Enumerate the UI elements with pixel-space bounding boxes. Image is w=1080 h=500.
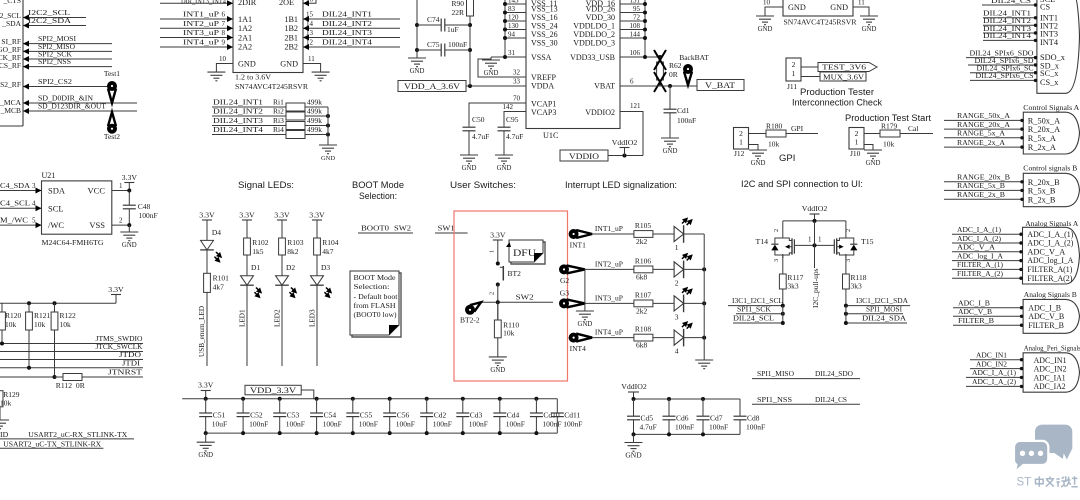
capacitor Cd8 100nF (734, 399, 766, 434)
svg-text:4.7uF: 4.7uF (506, 132, 523, 141)
svg-text:VDD33_USB: VDD33_USB (570, 53, 615, 62)
net label MUX_3.6V (801, 72, 866, 81)
LED 4 (interrupt) (674, 319, 706, 355)
svg-text:R62: R62 (669, 61, 682, 70)
svg-text:ADC_IN1: ADC_IN1 (1034, 356, 1067, 365)
svg-text:R_5x_B: R_5x_B (1028, 187, 1056, 196)
wire DIL24_CS (982, 0, 1037, 7)
resistor Ri2 499k on DIL24_INT2 (212, 107, 330, 121)
svg-text:100nF: 100nF (746, 423, 765, 432)
section title GPI (779, 153, 795, 164)
svg-text:DIR_INT3_INT4: DIR_INT3_INT4 (181, 0, 226, 6)
svg-text:100nF: 100nF (506, 420, 525, 429)
wire USART2_uC-RX_STLINK-TX (0, 430, 134, 439)
wire SPI2_SCK (23, 50, 112, 62)
svg-text:2DIR: 2DIR (238, 0, 257, 7)
svg-text:SN74AVC4T245RSVR: SN74AVC4T245RSVR (235, 82, 309, 91)
svg-text:94: 94 (508, 31, 516, 39)
net flag TEST_3V6 (801, 63, 877, 72)
svg-text:144: 144 (630, 31, 641, 39)
svg-text:R_20x_A: R_20x_A (1028, 125, 1060, 134)
svg-text:1.2 to 3.6V: 1.2 to 3.6V (235, 73, 271, 82)
svg-text:2: 2 (489, 292, 496, 295)
svg-text:VBAT: VBAT (594, 82, 615, 91)
svg-text:12: 12 (306, 39, 314, 47)
wire SPI1_MISO to DIL24_SDO (752, 369, 860, 379)
svg-text:INT1_uP: INT1_uP (595, 224, 624, 233)
svg-text:DIL24_CS: DIL24_CS (815, 395, 847, 404)
section title Production Tester Interconnection Check (792, 87, 882, 108)
wire ADC_V_A (952, 243, 1023, 254)
wire SPI1_MOSI (844, 304, 903, 323)
wire INT1_uP (160, 10, 233, 23)
resistor R105 2k2 wire INT1_uP (592, 221, 674, 246)
svg-text:D2: D2 (286, 263, 295, 272)
svg-text:GND: GND (830, 3, 848, 12)
svg-text:2A1: 2A1 (238, 34, 252, 43)
svg-text:4k7: 4k7 (322, 247, 334, 256)
svg-text:I2C and SPI connection to UI:: I2C and SPI connection to UI: (741, 179, 863, 189)
svg-text:1A2: 1A2 (238, 24, 252, 33)
svg-text:BT2-2: BT2-2 (460, 316, 480, 325)
svg-text:Cd1: Cd1 (677, 106, 690, 115)
svg-text:100nF: 100nF (563, 420, 582, 429)
wire VDD bus (620, 0, 662, 59)
svg-text:DIL24_CS: DIL24_CS (991, 0, 1031, 5)
wire DIR_INT3_INT4 to 2DIR (160, 0, 233, 6)
resistor R102 1k5 (244, 220, 269, 276)
capacitor Cd4 100nF (493, 399, 525, 433)
svg-text:1: 1 (489, 250, 496, 253)
capacitor C75 100nF (417, 40, 470, 57)
wire RANGE_2x_B (944, 190, 1024, 201)
svg-text:4: 4 (32, 200, 36, 208)
svg-text:13: 13 (306, 29, 314, 37)
svg-text:2: 2 (845, 229, 852, 232)
ground for interrupt LEDs (695, 360, 713, 369)
svg-text:ID: ID (0, 430, 9, 439)
wire RANGE_20x_A (944, 120, 1024, 131)
svg-text:INT4_uP: INT4_uP (183, 38, 220, 47)
svg-text:2B2: 2B2 (284, 43, 298, 52)
svg-text:2k2: 2k2 (636, 237, 648, 246)
power flag 3.3V for U21 (122, 173, 138, 191)
svg-text:83: 83 (508, 5, 516, 13)
svg-text:1: 1 (675, 243, 679, 252)
wire VDDIO2 pin 121 (620, 102, 643, 156)
svg-text:GPI: GPI (791, 124, 804, 133)
svg-text:SD_D123DIR_&OUT: SD_D123DIR_&OUT (38, 102, 106, 111)
svg-text:14: 14 (306, 20, 314, 28)
svg-text:JTDI: JTDI (122, 358, 141, 367)
svg-text:DIL24_INT4: DIL24_INT4 (983, 31, 1031, 40)
wire analog filter rail (415, 0, 472, 58)
svg-text:GND: GND (484, 70, 499, 77)
wire VSS bus (491, 0, 526, 59)
wire DIL24_INT1 (983, 9, 1037, 20)
svg-text:Ri1: Ri1 (273, 98, 284, 107)
wire LED2 (274, 285, 283, 366)
svg-text:499k: 499k (307, 116, 322, 125)
svg-text:VSS: VSS (89, 220, 105, 230)
svg-text:2A2: 2A2 (238, 43, 252, 52)
ground pin 10 of second U (756, 0, 783, 33)
ground for U21 (120, 225, 138, 249)
svg-text:INT1_uP: INT1_uP (183, 10, 220, 19)
svg-text:DIL24_SCL: DIL24_SCL (733, 314, 774, 323)
svg-text:G3: G3 (560, 288, 569, 297)
svg-text:FILTER_A_(1): FILTER_A_(1) (957, 260, 1003, 269)
svg-text:BOOT Mode: BOOT Mode (352, 180, 404, 191)
svg-text:4.7uF: 4.7uF (472, 132, 489, 141)
svg-text:Test1: Test1 (104, 69, 120, 78)
svg-text:INT2_uP: INT2_uP (595, 259, 624, 268)
wire DIL24_SCL (733, 314, 785, 325)
wire Cal (908, 124, 918, 133)
capacitor C54 100nF (310, 399, 342, 433)
section title User Switches (450, 180, 516, 191)
svg-text:VddIO2: VddIO2 (612, 138, 638, 147)
LED D1 (240, 263, 264, 298)
svg-text:72: 72 (633, 14, 641, 22)
resistor R112 0R (55, 374, 144, 391)
switch BT2 (489, 250, 522, 295)
svg-text:VDD_A_3.6V: VDD_A_3.6V (404, 82, 460, 91)
svg-text:6: 6 (630, 78, 634, 86)
svg-text:15: 15 (306, 11, 314, 19)
svg-text:S2_RF: S2_RF (0, 80, 21, 89)
svg-text:Production Tester: Production Tester (800, 87, 874, 97)
ground for R129 (0, 420, 9, 429)
test point Test1 (104, 69, 120, 103)
wire JTCK_SWCLK (0, 342, 143, 352)
svg-text:1B2: 1B2 (284, 24, 298, 33)
svg-text:3.3V: 3.3V (309, 211, 325, 220)
ground for Cd1 (661, 138, 679, 155)
wire gate tie I2C pull-ups (794, 221, 834, 308)
power flag 3.3V for D1 (239, 211, 255, 239)
LED D2 (275, 263, 299, 298)
svg-text:ADC_IN2: ADC_IN2 (1034, 365, 1067, 374)
svg-text:_CTS: _CTS (2, 0, 21, 5)
svg-text:1: 1 (808, 236, 812, 244)
svg-text:R108: R108 (635, 325, 652, 334)
harness connector Analog Signals A (1023, 219, 1080, 284)
note DFU (506, 240, 545, 264)
svg-text:M24C64-FMH6TG: M24C64-FMH6TG (42, 238, 104, 247)
svg-text:22R: 22R (451, 8, 464, 17)
wire INT3_uP (160, 28, 233, 41)
power flag 3.3V for JTAG (108, 285, 124, 303)
wire DIL24_SPIx6_SC (970, 64, 1037, 75)
svg-text:RANGE_2x_A: RANGE_2x_A (957, 138, 1005, 147)
svg-text:3.3V: 3.3V (122, 173, 138, 182)
wire SPI2_MISO (23, 42, 112, 54)
svg-text:Cd3: Cd3 (470, 411, 483, 420)
svg-text:1: 1 (818, 236, 822, 244)
svg-text:INT2_uP: INT2_uP (183, 19, 220, 28)
svg-text:2: 2 (119, 217, 123, 225)
svg-text:DIL24_INT3: DIL24_INT3 (322, 28, 372, 37)
svg-text:Cd6: Cd6 (676, 414, 689, 423)
harness connector DIL24/UI bus (top right) (1037, 0, 1080, 93)
svg-text:10k: 10k (503, 329, 514, 338)
svg-text:M_/WC: M_/WC (0, 216, 28, 225)
svg-text:Cd7: Cd7 (710, 414, 723, 423)
wire SPI1_SCK (736, 304, 785, 323)
svg-text:10uF: 10uF (212, 420, 227, 429)
svg-text:from FLASH: from FLASH (354, 302, 396, 310)
wire DIL24_INT4 (983, 31, 1037, 42)
wire FILTER_A_(1) (952, 260, 1023, 271)
svg-text:R_5x_A: R_5x_A (1028, 134, 1056, 143)
wire 3.3V rail top (182, 397, 557, 401)
svg-text:USART2_uC-TX_STLINK-RX: USART2_uC-TX_STLINK-RX (3, 439, 101, 448)
svg-text:4.7uF: 4.7uF (640, 423, 657, 432)
note BOOT Mode Selection (350, 271, 401, 337)
resistor R101 4k7 (204, 262, 230, 302)
svg-text:VDDA: VDDA (531, 82, 554, 91)
test point Test2 (104, 112, 120, 141)
svg-text:R102: R102 (252, 238, 269, 247)
wire G2-G3 ground tie (584, 269, 586, 311)
svg-text:INT3_uP: INT3_uP (183, 28, 220, 37)
svg-text:C54: C54 (324, 411, 337, 420)
svg-text:Cd2: Cd2 (434, 411, 447, 420)
power flag 3.3V for D2 (274, 211, 290, 239)
svg-text:J10: J10 (850, 149, 861, 158)
section title Signal LEDs (238, 180, 294, 191)
svg-text:USB_enum_LED: USB_enum_LED (198, 306, 206, 357)
svg-text:100nF: 100nF (286, 420, 305, 429)
wire LED3 (309, 285, 318, 366)
resistor R118 3k3 (843, 254, 867, 306)
ground for R110 (489, 357, 507, 374)
ground for C50 (460, 155, 478, 172)
section title Production Test Start (845, 113, 931, 123)
svg-text:R_2x_A: R_2x_A (1028, 143, 1056, 152)
svg-text:ADC_IA1: ADC_IA1 (1034, 373, 1066, 382)
svg-text:DIL24_INT1: DIL24_INT1 (213, 98, 263, 107)
svg-text:3: 3 (32, 182, 36, 190)
svg-text:User Switches:: User Switches: (450, 180, 516, 191)
capacitor C53 100nF (273, 399, 305, 433)
svg-text:ADC_log_I_A: ADC_log_I_A (1027, 256, 1073, 265)
wire INT2_uP (160, 19, 233, 32)
svg-text:SPI2_CS2: SPI2_CS2 (38, 77, 72, 86)
wire BOOT0 / SW2 (358, 224, 413, 234)
svg-text:R112 0R: R112 0R (56, 381, 85, 390)
svg-text:142: 142 (503, 103, 514, 111)
svg-text:RANGE_50x_A: RANGE_50x_A (957, 111, 1010, 120)
svg-text:R104: R104 (322, 238, 339, 247)
resistor Ri3 499k on DIL24_INT3 (212, 116, 330, 130)
svg-text:VDDLDO_3: VDDLDO_3 (573, 39, 615, 48)
test point BackBAT (679, 53, 709, 85)
wire I3C1_I2C1_SDA (844, 296, 910, 308)
svg-text:ADC_IA2: ADC_IA2 (1034, 382, 1066, 391)
svg-text:R122: R122 (60, 311, 77, 320)
wire RANGE_2x_A (944, 138, 1024, 149)
svg-text:6k8: 6k8 (636, 272, 648, 281)
svg-text:ST: ST (1017, 477, 1032, 489)
svg-text:SPI1_MOSI: SPI1_MOSI (866, 304, 902, 313)
wire I2C2_SDA (23, 16, 86, 29)
wire VBAT net (620, 78, 697, 89)
svg-text:CS: CS (1040, 2, 1051, 11)
svg-text:U21: U21 (42, 171, 56, 180)
svg-text:10k: 10k (60, 320, 72, 329)
test point INT1 (569, 229, 593, 250)
wire JTDO (0, 350, 143, 360)
svg-text:DIL24_SDA: DIL24_SDA (862, 314, 906, 323)
svg-text:499k: 499k (307, 107, 322, 116)
svg-text:C51: C51 (213, 411, 226, 420)
wire ADC_I_A_(2) (952, 234, 1023, 245)
svg-text:RANGE_20x_A: RANGE_20x_A (957, 120, 1010, 129)
svg-text:Cal: Cal (908, 124, 918, 133)
capacitor C48 100nF (123, 191, 158, 226)
svg-text:Control Signals A: Control Signals A (1023, 103, 1079, 112)
svg-text:BOOT Mode: BOOT Mode (354, 274, 396, 282)
svg-text:131: 131 (630, 0, 641, 5)
svg-text:SN74AVC4T245RSVR: SN74AVC4T245RSVR (784, 18, 858, 27)
ground for C95 (495, 155, 513, 172)
svg-text:FILTER_B: FILTER_B (1028, 321, 1064, 330)
ground for J12 (749, 145, 768, 168)
highlight box (red) (454, 211, 568, 381)
resistor Ri4 499k on DIL24_INT4 (212, 125, 330, 139)
svg-text:Analog_Peri_Signals: Analog_Peri_Signals (1024, 344, 1080, 353)
wire DIL24_SDA (844, 314, 907, 325)
capacitor C95 4.7uF (498, 103, 527, 155)
ground for VSSA (482, 57, 500, 77)
svg-text:11: 11 (858, 0, 865, 7)
svg-text:GND: GND (751, 160, 766, 167)
svg-text:R179: R179 (881, 122, 898, 131)
resistor R120 10k (0, 303, 22, 343)
svg-text:GND: GND (862, 26, 877, 33)
ground for cap bank (197, 433, 215, 459)
harness connector Control signals B (1023, 164, 1079, 207)
wire VDDIO net (608, 154, 643, 158)
wire DIL24_SPIx6_CS (970, 71, 1037, 82)
connector J10 (849, 128, 864, 159)
svg-text:ADC_V_A: ADC_V_A (1027, 247, 1065, 256)
svg-text:3.3V: 3.3V (199, 211, 215, 220)
svg-text:Test2: Test2 (104, 132, 120, 141)
svg-text:_SDA: _SDA (1, 19, 21, 28)
svg-text:2: 2 (773, 229, 780, 232)
capacitor Cd1 100nF (664, 86, 697, 138)
svg-text:ADC_I_A_(1): ADC_I_A_(1) (957, 225, 1001, 234)
svg-text:100nF: 100nF (675, 423, 694, 432)
svg-text:ADC_V_B: ADC_V_B (1028, 312, 1064, 321)
svg-text:GPI: GPI (779, 153, 795, 164)
svg-text:CS_x: CS_x (1040, 78, 1059, 87)
svg-text:1: 1 (739, 138, 743, 147)
wire SD_D123DIR_&OUT (23, 102, 137, 114)
svg-text:Selection:: Selection: (359, 191, 397, 202)
capacitor C50 4.7uF (463, 95, 527, 156)
svg-text:Ri3: Ri3 (273, 116, 284, 125)
capacitor C52 100nF (237, 399, 269, 433)
svg-text:33: 33 (513, 78, 521, 86)
svg-text:R120: R120 (5, 311, 22, 320)
wire SPI2_CS2 (23, 77, 110, 90)
ground for Cd bank (625, 434, 643, 459)
wire JTNRST (0, 368, 143, 380)
svg-text:GND: GND (280, 60, 298, 69)
wire JTDI (0, 358, 143, 370)
wire USART2_uC-TX_STLINK-RX (0, 439, 103, 448)
svg-text:INT4: INT4 (1040, 38, 1059, 47)
svg-text:Analog Signals A: Analog Signals A (1025, 219, 1078, 228)
svg-text:LED3: LED3 (309, 309, 317, 327)
power flag VddIO2 for pull-ups (802, 204, 828, 221)
svg-text:TEST_3V6: TEST_3V6 (822, 63, 866, 72)
wire VCC pin 1 (112, 182, 132, 193)
ground for Ri block (319, 145, 337, 162)
svg-text:G2: G2 (560, 276, 569, 285)
section title BOOT Mode Selection (352, 180, 404, 202)
wire Ri common to ground (327, 107, 329, 145)
resistor R106 6k8 wire INT2_uP (585, 256, 674, 281)
svg-text:100nF: 100nF (433, 420, 452, 429)
LED D3 (310, 263, 334, 298)
wire I3C1_I2C1_SCL (728, 296, 785, 308)
svg-text:Control signals B: Control signals B (1023, 164, 1077, 173)
wire 3.3V pull-up rail (0, 301, 116, 305)
svg-text:100nF: 100nF (677, 116, 696, 125)
svg-text:Interconnection Check: Interconnection Check (792, 98, 882, 108)
wire VddIO2 rail (632, 397, 741, 401)
test point BT2-2 (460, 302, 481, 324)
svg-text:121: 121 (630, 102, 641, 110)
svg-text:SW2: SW2 (516, 293, 534, 302)
svg-text:Selection:: Selection: (354, 283, 390, 291)
level shifter U SN74AVC4T245RSVR (top) (233, 0, 309, 91)
svg-text:4k7: 4k7 (213, 283, 225, 292)
svg-text:D1: D1 (251, 263, 260, 272)
wire SW2 node (481, 285, 553, 321)
svg-text:DIL24_INT2: DIL24_INT2 (213, 107, 263, 116)
resistor R122 10k (51, 303, 76, 377)
svg-text:VddIO2: VddIO2 (621, 382, 647, 391)
svg-text:DIL24_INT3: DIL24_INT3 (213, 116, 263, 125)
svg-text:_MCB: _MCB (0, 106, 21, 115)
svg-text:3.3V: 3.3V (198, 381, 214, 390)
wire ADC_I_A_(2) (peri) (966, 377, 1023, 388)
svg-text:VddIO2: VddIO2 (802, 204, 828, 213)
svg-text:C56: C56 (397, 411, 410, 420)
svg-text:Signal LEDs:: Signal LEDs: (238, 180, 294, 191)
svg-text:VDDIO2: VDDIO2 (585, 108, 615, 117)
svg-text:GND: GND (788, 3, 806, 12)
svg-text:2B1: 2B1 (284, 34, 298, 43)
svg-text:MUX_3.6V: MUX_3.6V (823, 72, 865, 81)
svg-text:C52: C52 (250, 411, 263, 420)
power flag VddIO2 for Cd bank (621, 382, 647, 399)
svg-text:ADC_log_I_A: ADC_log_I_A (957, 251, 1003, 260)
capacitor C56 100nF (383, 399, 415, 433)
harness connector Analog_Peri_Signals (1023, 344, 1080, 393)
wire SD_D0DIR_&IN (23, 94, 137, 107)
svg-text:106: 106 (630, 49, 641, 57)
svg-text:10k: 10k (34, 320, 46, 329)
svg-text:100nF: 100nF (448, 40, 467, 49)
svg-text:SW2: SW2 (394, 224, 411, 233)
